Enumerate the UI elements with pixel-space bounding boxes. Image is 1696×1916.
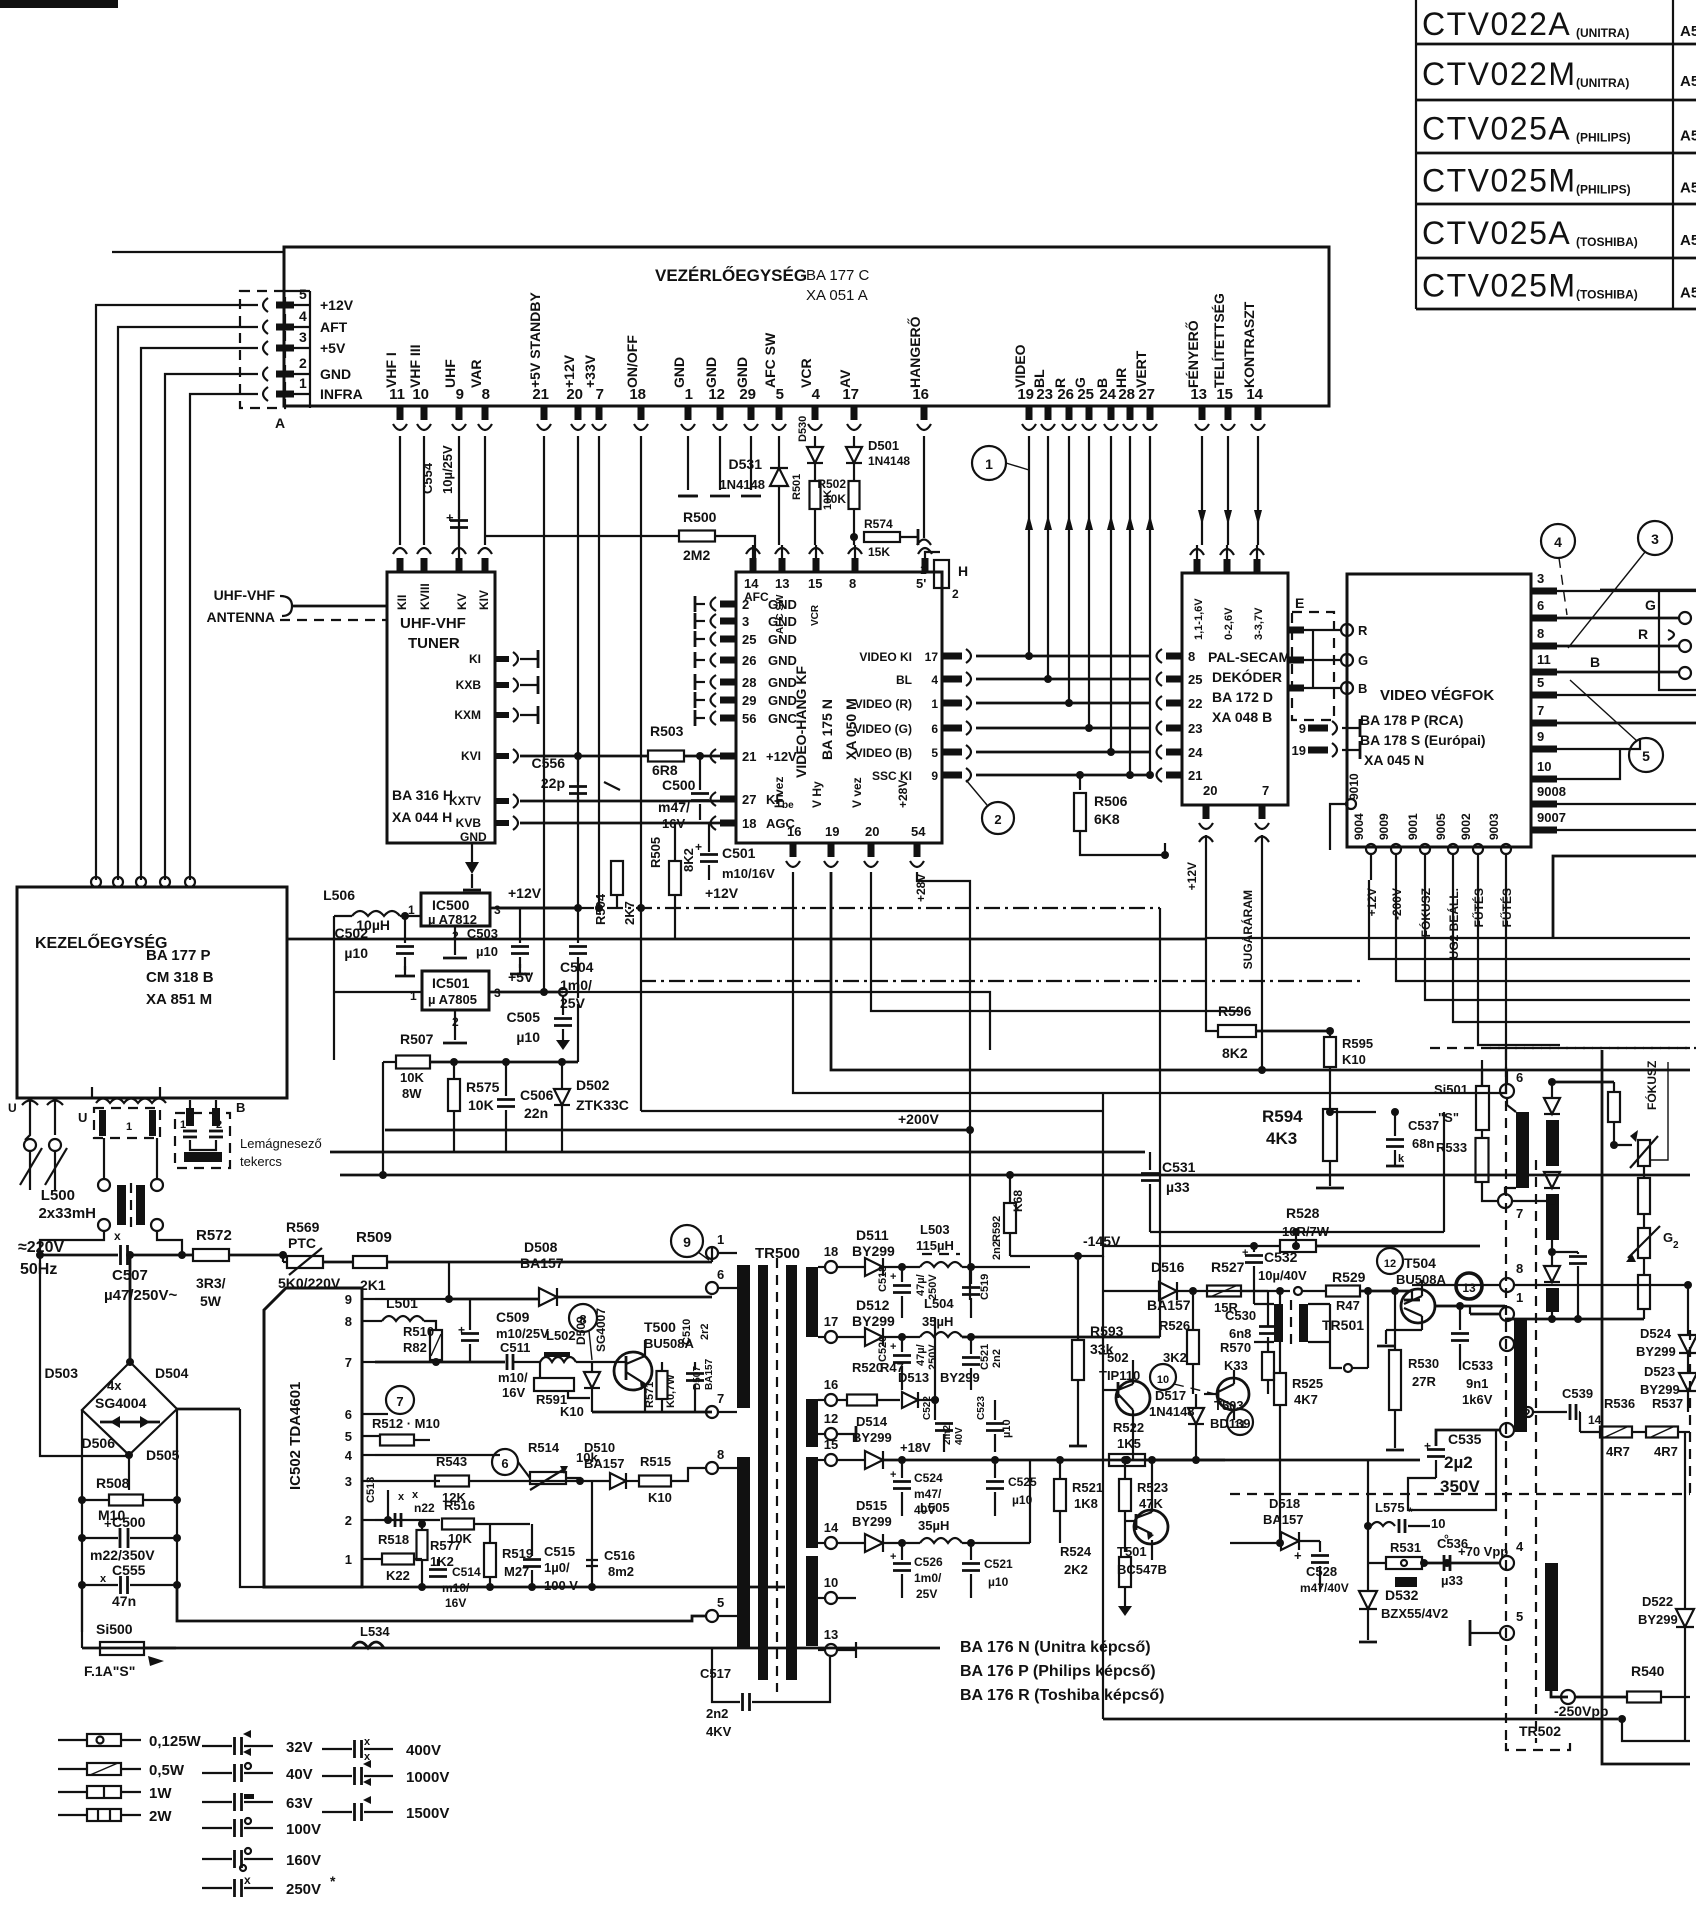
wire mains to bridge bbox=[40, 1231, 104, 1255]
wire +12V down bbox=[577, 436, 579, 908]
TR500 primary winding bbox=[737, 1265, 750, 1408]
svg-text:tekercs: tekercs bbox=[240, 1154, 282, 1169]
resistor R575 10K bbox=[453, 1062, 455, 1078]
resistor R530 27R bbox=[1389, 1350, 1401, 1410]
wire row 1232 bbox=[1150, 1231, 1444, 1233]
connector A pin 3 +5V bbox=[276, 345, 294, 352]
capacitor C516 8m2 bbox=[591, 1481, 593, 1556]
svg-text:R543: R543 bbox=[436, 1454, 467, 1469]
circle 8 callout bbox=[569, 1304, 597, 1332]
svg-text:CTV022M: CTV022M bbox=[1422, 56, 1577, 92]
svg-text:5: 5 bbox=[1537, 675, 1544, 690]
svg-text:K10: K10 bbox=[1342, 1052, 1366, 1067]
connector A pin 5 +12V bbox=[276, 302, 294, 309]
svg-text:DEKÓDER: DEKÓDER bbox=[1212, 668, 1282, 685]
svg-text:FÉNYERŐ: FÉNYERŐ bbox=[1184, 320, 1201, 388]
capacitor C517 2n2 4KV bbox=[712, 1648, 740, 1702]
svg-text:m47/: m47/ bbox=[914, 1487, 942, 1501]
capacitor C518 47u/250V bbox=[901, 1267, 903, 1282]
svg-text:C523: C523 bbox=[976, 1396, 987, 1420]
svg-text:4: 4 bbox=[931, 673, 938, 687]
svg-text:0,125W: 0,125W bbox=[149, 1733, 202, 1750]
svg-text:µ33: µ33 bbox=[1166, 1179, 1190, 1195]
svg-text:C539: C539 bbox=[1562, 1386, 1593, 1401]
transistor T500 BU508A bbox=[614, 1352, 652, 1390]
svg-text:8: 8 bbox=[579, 1312, 586, 1327]
capacitor C504 1m0/25V bbox=[577, 908, 579, 943]
svg-text:GND: GND bbox=[768, 675, 797, 690]
svg-text:R515: R515 bbox=[640, 1454, 671, 1469]
svg-text:C522: C522 bbox=[922, 1396, 933, 1420]
capacitor C501 m10/16V bbox=[611, 861, 623, 895]
svg-text:D511: D511 bbox=[856, 1227, 889, 1243]
svg-text:+12V: +12V bbox=[508, 885, 542, 901]
svg-text:B: B bbox=[1590, 654, 1600, 670]
svg-text:7: 7 bbox=[1516, 1206, 1523, 1221]
svg-text:3: 3 bbox=[1537, 571, 1544, 586]
TR500 secondary pins bbox=[825, 1261, 837, 1273]
svg-text:4K3: 4K3 bbox=[1266, 1129, 1297, 1148]
svg-text:13: 13 bbox=[824, 1627, 838, 1642]
svg-text:8: 8 bbox=[1516, 1261, 1523, 1276]
resistor top right column bbox=[1608, 1092, 1620, 1122]
node 6 and 7 of flyback top bbox=[1500, 1084, 1514, 1098]
capacitor C501 bbox=[708, 823, 710, 852]
resistor R519 M27 bbox=[484, 1543, 496, 1577]
page header fragment bbox=[0, 0, 118, 8]
svg-text:1W: 1W bbox=[149, 1785, 172, 1802]
svg-text:C525: C525 bbox=[1008, 1475, 1037, 1489]
svg-text:VERT: VERT bbox=[1133, 350, 1149, 388]
svg-text:1m0/: 1m0/ bbox=[560, 977, 592, 993]
+200V rail bbox=[385, 1129, 970, 1132]
wire node8 to diode column bbox=[1514, 1284, 1688, 1286]
svg-text:D508: D508 bbox=[524, 1239, 558, 1255]
svg-text:GND: GND bbox=[734, 357, 750, 388]
svg-text:2K7: 2K7 bbox=[622, 901, 637, 925]
svg-text:x: x bbox=[244, 1873, 251, 1887]
svg-text:C528: C528 bbox=[1306, 1564, 1337, 1579]
svg-text:17: 17 bbox=[824, 1314, 838, 1329]
svg-text:VIDEO (R): VIDEO (R) bbox=[855, 697, 912, 711]
wire left edge down from L506 bbox=[333, 916, 335, 1060]
svg-text:D502: D502 bbox=[576, 1077, 610, 1093]
legend resistor 0.125W bbox=[58, 1739, 88, 1741]
circle 5 callout bbox=[1629, 738, 1663, 772]
svg-text:C530: C530 bbox=[1225, 1308, 1256, 1323]
resistor R572 3R3/5W bbox=[182, 1254, 194, 1257]
svg-text:BA157: BA157 bbox=[584, 1456, 624, 1471]
svg-text:9002: 9002 bbox=[1459, 813, 1473, 840]
nested corner wires video out bottom bbox=[1425, 880, 1690, 1000]
svg-text:x: x bbox=[364, 1736, 371, 1748]
svg-text:9: 9 bbox=[1537, 729, 1544, 744]
wire pin4 row bbox=[375, 1454, 500, 1456]
svg-text:C516: C516 bbox=[604, 1548, 635, 1563]
svg-text:5: 5 bbox=[931, 746, 938, 760]
flyback TR502 pins bbox=[1500, 1278, 1514, 1292]
svg-text:R505: R505 bbox=[648, 837, 663, 868]
KF pin 18 AGC bbox=[720, 820, 736, 827]
svg-text:47n: 47n bbox=[112, 1593, 136, 1609]
KF pin 27 KFbe bbox=[720, 796, 736, 803]
svg-text:INFRA: INFRA bbox=[320, 386, 363, 402]
svg-text:TELÍTETTSÉG: TELÍTETTSÉG bbox=[1211, 293, 1227, 388]
svg-text:D531: D531 bbox=[729, 456, 763, 472]
resistor R521 1K8 bbox=[1054, 1479, 1066, 1511]
legend capacitor 40V bbox=[202, 1772, 232, 1774]
IC500 pin2 ground bbox=[454, 926, 456, 955]
svg-text:9: 9 bbox=[683, 1234, 691, 1250]
svg-text:D512: D512 bbox=[856, 1297, 890, 1313]
wire node 8 row bbox=[1412, 1284, 1500, 1286]
capacitor C503 u10 bbox=[519, 908, 521, 943]
svg-text:T504: T504 bbox=[1404, 1255, 1436, 1271]
ground stub pin 12 bbox=[719, 436, 721, 490]
svg-text:GND: GND bbox=[768, 693, 797, 708]
svg-text:R537: R537 bbox=[1652, 1396, 1683, 1411]
svg-text:L502: L502 bbox=[546, 1328, 576, 1343]
svg-text:KII: KII bbox=[395, 595, 409, 610]
resistor R592 K68 bbox=[1004, 1203, 1016, 1233]
zener D502 ZTK33C bbox=[561, 1062, 563, 1088]
rail under T500 bbox=[592, 1411, 712, 1414]
svg-text:25V: 25V bbox=[916, 1587, 937, 1601]
svg-text:C519: C519 bbox=[979, 1274, 991, 1300]
rail from KEZELOEGYSEG to decoder bbox=[287, 938, 1206, 941]
capacitor C533 9n1 1k6V bbox=[1459, 1306, 1461, 1330]
resistor below focus pot bbox=[1638, 1178, 1650, 1214]
svg-text:BL: BL bbox=[896, 673, 912, 687]
resistor R523 47K bbox=[1119, 1479, 1131, 1511]
svg-text:8m2: 8m2 bbox=[608, 1564, 634, 1579]
svg-text:R577: R577 bbox=[430, 1538, 461, 1553]
capacitor C526 1m0/25V bbox=[901, 1543, 903, 1560]
capacitor C535 2u2/350V bold bbox=[1436, 1430, 1500, 1446]
svg-text:+: + bbox=[1424, 1439, 1431, 1453]
dashed rail top right bbox=[1490, 1047, 1696, 1049]
resistor G2 bottom bbox=[1638, 1275, 1650, 1309]
wire +5V STANDBY down bbox=[543, 436, 545, 992]
svg-text:32V: 32V bbox=[286, 1739, 313, 1756]
wire pin2 row bbox=[375, 1519, 440, 1521]
svg-text:5: 5 bbox=[299, 286, 307, 302]
svg-text:1: 1 bbox=[126, 1121, 132, 1133]
vertical 1622 down bbox=[1622, 1719, 1690, 1741]
circle 13 callout bold bbox=[1456, 1273, 1482, 1299]
svg-text:21: 21 bbox=[742, 749, 756, 764]
svg-text:R592: R592 bbox=[991, 1216, 1003, 1242]
svg-text:VEZÉRLŐEGYSÉG: VEZÉRLŐEGYSÉG bbox=[655, 266, 807, 285]
capacitor C505 u10 bbox=[559, 988, 567, 996]
dashed box upper right of flyback bbox=[1230, 1493, 1690, 1495]
wire +33V down bbox=[598, 436, 600, 908]
svg-text:2K1: 2K1 bbox=[360, 1277, 386, 1293]
wire pin9 down-left bbox=[1557, 738, 1640, 749]
wire pin8 L501 bbox=[375, 1320, 382, 1322]
svg-text:+200V: +200V bbox=[898, 1111, 940, 1127]
svg-text:9: 9 bbox=[345, 1292, 352, 1307]
svg-text:m10/25V: m10/25V bbox=[496, 1326, 549, 1341]
svg-text:18: 18 bbox=[824, 1244, 838, 1259]
svg-text:BA157: BA157 bbox=[1147, 1297, 1191, 1313]
svg-text:L575: L575 bbox=[1375, 1500, 1405, 1515]
node circle 2 bbox=[982, 802, 1014, 834]
wire KF Vvez down bbox=[871, 872, 1240, 1011]
svg-text:n22: n22 bbox=[414, 1501, 435, 1515]
svg-text:3K2: 3K2 bbox=[1163, 1350, 1187, 1365]
wire +5V to right bbox=[563, 992, 990, 1050]
svg-text:VIDEO (G): VIDEO (G) bbox=[854, 722, 912, 736]
svg-text:KI: KI bbox=[469, 652, 481, 666]
svg-text:C537: C537 bbox=[1408, 1118, 1439, 1133]
svg-text:250V: 250V bbox=[286, 1881, 321, 1898]
svg-text:BY299: BY299 bbox=[852, 1514, 892, 1529]
stack top rail bbox=[1552, 1081, 1614, 1084]
rail decoder +12V right bbox=[1206, 880, 1690, 938]
svg-text:R594: R594 bbox=[1262, 1107, 1303, 1126]
svg-text:C518: C518 bbox=[877, 1266, 889, 1292]
control panel top pin circles bbox=[91, 877, 101, 887]
KF pin 21 +12V bbox=[720, 753, 736, 760]
wire pin5 to right bbox=[1557, 694, 1696, 696]
degauss coil B dashed box bbox=[175, 1113, 230, 1168]
svg-text:C506: C506 bbox=[520, 1087, 554, 1103]
svg-text:56: 56 bbox=[742, 711, 756, 726]
svg-text:D522: D522 bbox=[1642, 1594, 1673, 1609]
svg-text:14: 14 bbox=[1588, 1413, 1602, 1427]
svg-text:3: 3 bbox=[742, 614, 749, 629]
svg-text:7: 7 bbox=[1262, 783, 1269, 798]
svg-text:C505: C505 bbox=[507, 1009, 541, 1025]
svg-text:BA 176 R (Toshiba képcső): BA 176 R (Toshiba képcső) bbox=[960, 1687, 1165, 1704]
svg-text:3-3,7V: 3-3,7V bbox=[1253, 607, 1265, 640]
wire KVI to R503 to KF pin 21 bbox=[520, 755, 648, 758]
svg-text:0,5W: 0,5W bbox=[149, 1762, 185, 1779]
+12V dashdot rail bbox=[497, 907, 578, 910]
capacitor C500 m47/16V bbox=[696, 752, 704, 760]
svg-text:9n1: 9n1 bbox=[1466, 1376, 1488, 1391]
svg-text:8: 8 bbox=[345, 1314, 352, 1329]
svg-text:4R7: 4R7 bbox=[1654, 1444, 1678, 1459]
transistor T502 TIP110 bbox=[1116, 1381, 1150, 1415]
ground stub pin 1 bbox=[687, 436, 689, 490]
svg-text:C514: C514 bbox=[452, 1565, 481, 1579]
capacitor C523 u10 bbox=[994, 1400, 996, 1420]
wires video bus down to decoder bbox=[1028, 436, 1030, 656]
resistor R501 10K bbox=[810, 481, 821, 509]
svg-text:9: 9 bbox=[1299, 721, 1306, 736]
svg-text:+: + bbox=[104, 1516, 112, 1531]
svg-text:+28V: +28V bbox=[896, 780, 910, 808]
node6 wire up bbox=[1506, 1070, 1508, 1084]
svg-text:ANTENNA: ANTENNA bbox=[207, 609, 275, 625]
resistor R508 M10 bbox=[78, 1496, 86, 1504]
control unit U-VEZERLOEGYSEG BA177C box bbox=[284, 247, 1329, 406]
svg-text:UHF: UHF bbox=[442, 359, 458, 388]
regulator IC501 uA7805 bbox=[422, 971, 489, 1010]
svg-text:1: 1 bbox=[920, 563, 927, 577]
svg-text:R572: R572 bbox=[196, 1227, 232, 1244]
svg-text:+70 Vpp: +70 Vpp bbox=[1458, 1544, 1508, 1559]
svg-text:6: 6 bbox=[931, 722, 938, 736]
svg-text:+12V: +12V bbox=[766, 749, 797, 764]
svg-text:1K2: 1K2 bbox=[430, 1554, 454, 1569]
svg-text:8: 8 bbox=[849, 576, 856, 591]
CRT cathode wires G R B bbox=[1557, 617, 1678, 620]
svg-text:H vez: H vez bbox=[772, 777, 786, 808]
capacitor C500 m22/350V bbox=[78, 1534, 86, 1542]
svg-text:VIDEO KI: VIDEO KI bbox=[859, 650, 912, 664]
svg-text:D501: D501 bbox=[868, 438, 899, 453]
svg-text:1500V: 1500V bbox=[406, 1805, 449, 1822]
svg-text:KIV: KIV bbox=[477, 590, 491, 610]
TR500 secondary winding bbox=[806, 1267, 818, 1337]
svg-text:R596: R596 bbox=[1218, 1003, 1252, 1019]
svg-text:22p: 22p bbox=[541, 775, 565, 791]
svg-text:+: + bbox=[890, 1469, 896, 1481]
transistor T503 BD139 bbox=[1217, 1378, 1249, 1410]
svg-text:+: + bbox=[890, 1551, 896, 1563]
svg-text:XA 044 H: XA 044 H bbox=[392, 809, 452, 825]
svg-text:19: 19 bbox=[1292, 743, 1306, 758]
wire left down to bridge bottom bbox=[40, 1255, 126, 1456]
connector A pin 4 AFT bbox=[276, 324, 294, 331]
dashdot rail 981 bbox=[640, 980, 1360, 982]
svg-text:H: H bbox=[958, 563, 968, 579]
ground stub pin 29 bbox=[750, 436, 752, 490]
svg-text:m22/350V: m22/350V bbox=[90, 1547, 155, 1563]
svg-text:C501: C501 bbox=[722, 845, 756, 861]
svg-text:C504: C504 bbox=[560, 959, 594, 975]
resistor R574 15K bbox=[850, 533, 858, 541]
svg-text:BL: BL bbox=[1031, 369, 1047, 388]
+5V output bbox=[489, 991, 563, 994]
svg-text:+28V: +28V bbox=[914, 874, 928, 902]
svg-text:L505: L505 bbox=[920, 1500, 950, 1515]
svg-text:0-2,6V: 0-2,6V bbox=[1223, 607, 1235, 640]
resistor R595 K10 bbox=[1324, 1037, 1336, 1067]
legend capacitor 160V bbox=[202, 1858, 232, 1860]
svg-text:1: 1 bbox=[717, 1232, 724, 1247]
svg-text:C521: C521 bbox=[984, 1557, 1013, 1571]
svg-text:2: 2 bbox=[994, 812, 1001, 827]
wire VCR down bbox=[814, 436, 816, 446]
svg-text:28: 28 bbox=[742, 675, 756, 690]
svg-text:47µ/: 47µ/ bbox=[915, 1344, 927, 1366]
svg-text:250V: 250V bbox=[927, 1344, 939, 1370]
wires connector A to control board bbox=[96, 305, 258, 880]
svg-text:C510: C510 bbox=[681, 1319, 693, 1345]
node circle 1 bbox=[972, 446, 1006, 480]
capacitor C531 u33 bbox=[1149, 1152, 1151, 1170]
svg-text:10µ/25V: 10µ/25V bbox=[440, 445, 455, 494]
svg-text:R508: R508 bbox=[96, 1475, 130, 1491]
svg-text:+: + bbox=[695, 840, 702, 854]
pin10 stub bbox=[836, 1597, 856, 1599]
rail from video out 9009 bbox=[1369, 880, 1690, 959]
capacitor C506 22n bbox=[505, 1062, 507, 1096]
svg-text:R529: R529 bbox=[1332, 1269, 1366, 1285]
svg-text:1K8: 1K8 bbox=[1074, 1496, 1098, 1511]
svg-text:C531: C531 bbox=[1162, 1159, 1196, 1175]
circle 3 callout bbox=[1638, 521, 1672, 555]
svg-text:6: 6 bbox=[345, 1407, 352, 1422]
svg-text:C555: C555 bbox=[112, 1562, 146, 1578]
svg-text:+12V: +12V bbox=[320, 297, 354, 313]
wire pin7 to right bbox=[1557, 722, 1696, 725]
svg-text:BY299: BY299 bbox=[852, 1430, 892, 1445]
wire node7 to stack bbox=[1512, 1200, 1552, 1202]
svg-text:GND: GND bbox=[768, 632, 797, 647]
svg-text:50Hz: 50Hz bbox=[20, 1261, 57, 1278]
svg-text:K68: K68 bbox=[1011, 1190, 1025, 1212]
circle 12 callout bbox=[1377, 1248, 1403, 1274]
diode D530 1N4148 bbox=[807, 447, 823, 463]
resistor R525 4K7 bbox=[1274, 1373, 1286, 1405]
svg-text:C556: C556 bbox=[532, 755, 566, 771]
svg-text:XA 045 N: XA 045 N bbox=[1364, 752, 1424, 768]
svg-text:12: 12 bbox=[1384, 1258, 1396, 1270]
capacitor C525 u10 bbox=[994, 1460, 996, 1478]
svg-text:C532: C532 bbox=[1264, 1249, 1298, 1265]
svg-text:C513: C513 bbox=[365, 1477, 377, 1503]
svg-text:Si501: Si501 bbox=[1434, 1082, 1468, 1097]
svg-text:R521: R521 bbox=[1072, 1480, 1103, 1495]
svg-text:4: 4 bbox=[345, 1448, 353, 1463]
svg-text:C520: C520 bbox=[877, 1336, 889, 1362]
svg-text:TUNER: TUNER bbox=[408, 635, 460, 652]
svg-text:3: 3 bbox=[494, 903, 501, 917]
KF left GND pins bbox=[720, 601, 736, 608]
svg-text:5: 5 bbox=[1516, 1609, 1523, 1624]
svg-text:9008: 9008 bbox=[1537, 784, 1566, 799]
resistor R509 2K1 bbox=[353, 1256, 387, 1268]
svg-text:V Hy: V Hy bbox=[810, 781, 824, 808]
svg-text:12: 12 bbox=[824, 1411, 838, 1426]
capacitor C527 68n bbox=[1391, 1108, 1399, 1116]
svg-text:3: 3 bbox=[299, 329, 307, 345]
svg-text:BY299: BY299 bbox=[1636, 1344, 1676, 1359]
svg-text:D530: D530 bbox=[797, 416, 809, 442]
svg-text:9: 9 bbox=[931, 769, 938, 783]
resistor R571 K0/7W bbox=[657, 1371, 668, 1399]
legend capacitor 1000V bbox=[322, 1775, 352, 1777]
svg-text:IC500: IC500 bbox=[432, 897, 470, 913]
tuner box UHF-VHF BA316H bbox=[387, 572, 495, 843]
svg-text:5: 5 bbox=[345, 1429, 352, 1444]
capacitor C515 1u0/100V bbox=[531, 1524, 533, 1556]
wire UHF down to tuner bbox=[458, 436, 460, 545]
wire pin13 bottom bbox=[836, 1649, 856, 1651]
H coil symbol at pin 5 bbox=[925, 552, 940, 558]
transistor T504 BU508A bbox=[1401, 1289, 1435, 1323]
rail from C555 right to TR500 pin5 bbox=[177, 1585, 705, 1621]
svg-text:2µ2: 2µ2 bbox=[1444, 1453, 1473, 1472]
wires 9008 9007 right bbox=[1557, 803, 1696, 805]
pin12 stub bbox=[836, 1433, 856, 1435]
svg-text:D505: D505 bbox=[146, 1447, 180, 1463]
svg-text:R509: R509 bbox=[356, 1229, 392, 1246]
svg-text:4: 4 bbox=[299, 308, 307, 324]
svg-text:KVI: KVI bbox=[461, 749, 481, 763]
svg-text:UHF-VHF: UHF-VHF bbox=[214, 587, 276, 603]
svg-text:x: x bbox=[114, 1229, 121, 1243]
svg-text:BY299: BY299 bbox=[1638, 1612, 1678, 1627]
legend resistor 0.5W bbox=[58, 1768, 88, 1770]
svg-text:13: 13 bbox=[1462, 1281, 1476, 1295]
svg-text:20: 20 bbox=[1203, 783, 1217, 798]
